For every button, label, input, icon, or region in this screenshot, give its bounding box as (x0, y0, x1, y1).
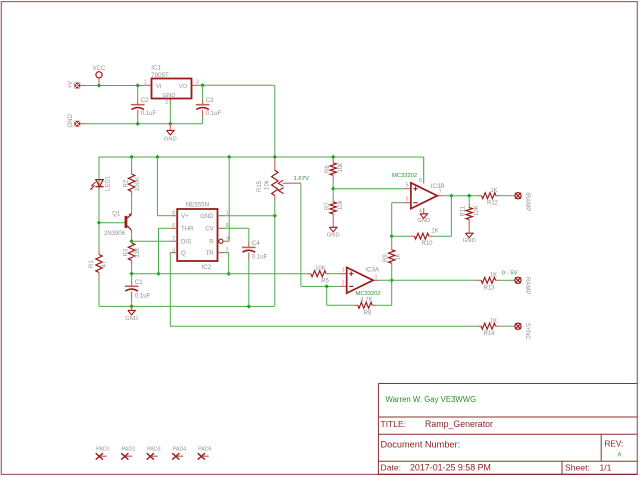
pad PAD2 (121, 447, 135, 460)
wire IC3B output (444, 195, 477, 197)
svg-text:Date:: Date: (381, 463, 402, 473)
svg-text:DIS: DIS (181, 238, 191, 245)
junction regulator feed / R15 (273, 155, 277, 159)
svg-text:0.1uF: 0.1uF (252, 253, 268, 260)
svg-text:R1: R1 (89, 260, 95, 268)
svg-text:R2: R2 (124, 179, 130, 187)
resistor R8 4.7K (327, 297, 392, 316)
junction IC1 GND pin (168, 122, 172, 126)
supply symbol VCC (93, 66, 106, 86)
junction R6 R7 node (331, 187, 335, 191)
svg-text:VO: VO (179, 84, 188, 90)
svg-text:REV:: REV: (605, 440, 624, 449)
svg-text:C3: C3 (206, 97, 214, 104)
svg-text:Q1: Q1 (112, 211, 121, 217)
svg-text:IC2: IC2 (202, 264, 212, 271)
wire DIS node to IC2 DIS pin (132, 240, 171, 242)
capacitor C3 0.1uF (196, 85, 222, 123)
svg-text:1K: 1K (431, 228, 438, 234)
svg-text:0 - 5V: 0 - 5V (502, 270, 518, 276)
svg-text:10k: 10k (338, 199, 344, 210)
timer IC2 NE555N (170, 201, 229, 271)
junction IC3A minus node (325, 284, 329, 288)
svg-text:1K: 1K (490, 188, 497, 194)
ground GND under IC3B (417, 214, 430, 224)
svg-text:GND: GND (163, 93, 176, 99)
wire 555 GND pin to R15 node (225, 215, 275, 217)
ground GND under IC1 (164, 124, 177, 143)
pad PAD4 (172, 447, 186, 460)
junction C3 top (200, 83, 204, 87)
svg-text:R9: R9 (383, 254, 389, 262)
svg-text:GND: GND (200, 213, 214, 220)
wire base node to Q1 (99, 222, 125, 224)
transistor Q1 2N3906 (104, 211, 132, 237)
svg-text:A: A (618, 453, 622, 459)
junction R10 output node (449, 194, 453, 198)
svg-text:0.1uF: 0.1uF (141, 110, 157, 117)
svg-text:1/1: 1/1 (600, 463, 612, 473)
wire Q1 collector to DIS node (131, 234, 133, 241)
svg-text:R6: R6 (325, 165, 331, 173)
svg-text:GND: GND (327, 233, 340, 239)
wire IC3A output to R13 (380, 279, 477, 281)
svg-text:6: 6 (172, 223, 175, 229)
junction C2 bottom (136, 122, 140, 126)
resistor R13 1K (477, 272, 513, 291)
resistor R3 33K (124, 241, 141, 274)
junction THR on triangle wire (156, 272, 160, 276)
title row text (381, 419, 494, 429)
pad SYNC (513, 323, 530, 340)
wire R10 right up to output (450, 196, 452, 237)
junction C4 bottom (247, 304, 251, 308)
wire divider to IC3B plus (333, 188, 403, 190)
pad PAD1 (96, 447, 110, 460)
svg-text:8: 8 (172, 211, 175, 217)
date row (381, 463, 491, 473)
svg-text:+V: +V (68, 81, 74, 89)
junction DIS node (129, 239, 133, 243)
junction VCC on +V wire (97, 83, 101, 87)
wire triangle node to R5 (132, 273, 307, 275)
svg-text:7: 7 (439, 190, 442, 196)
svg-text:Warren W. Gay VE3WWG: Warren W. Gay VE3WWG (386, 395, 477, 404)
capacitor C4 0.1uF (242, 240, 268, 306)
junction R11 top (467, 194, 471, 198)
pad RAMP (513, 277, 530, 294)
svg-text:3: 3 (342, 268, 345, 274)
svg-text:VCC: VCC (93, 66, 106, 72)
svg-text:8: 8 (419, 178, 422, 184)
resistor R14 1K (477, 318, 513, 337)
svg-text:1K: 1K (490, 272, 497, 278)
svg-text:33K: 33K (135, 247, 141, 258)
capacitor C1 0.1uF (125, 274, 151, 307)
resistor R2 100K (124, 157, 141, 195)
junction 555 V+ drop (155, 155, 159, 159)
wire +V to IC1 VI (86, 85, 145, 87)
wire Q to R14 sync line (170, 325, 477, 327)
svg-text:C1: C1 (135, 279, 143, 286)
ground GND under R11 (463, 233, 476, 244)
svg-text:Q: Q (181, 250, 186, 257)
svg-text:GND: GND (463, 238, 476, 244)
svg-text:CV: CV (205, 226, 214, 233)
wire R15 node down to ground rail (274, 216, 276, 307)
wire R2 to Q1 emitter (131, 195, 133, 213)
wire +5V rail (99, 156, 424, 158)
svg-text:IC3B: IC3B (431, 183, 445, 190)
svg-text:PAD3: PAD3 (147, 447, 160, 453)
svg-text:R3: R3 (124, 248, 130, 256)
svg-text:5: 5 (406, 183, 409, 189)
ground GND under C1 (125, 306, 138, 321)
svg-text:GND: GND (125, 316, 138, 322)
op-amp IC3B MC33202 (392, 157, 445, 215)
svg-text:10k: 10k (338, 162, 344, 173)
svg-text:PAD2: PAD2 (122, 447, 135, 453)
pad PAD3 (147, 447, 161, 460)
svg-text:R7: R7 (325, 202, 331, 210)
trimpot R15 10k (257, 157, 301, 216)
resistor R12 1K (478, 188, 514, 207)
wire ground rail bottom (99, 305, 275, 307)
svg-text:IRAMP: IRAMP (524, 192, 530, 211)
junction R10 left / R9 top (390, 234, 394, 238)
svg-text:IC3A: IC3A (365, 267, 380, 274)
wire IC1 GND pin to rail (169, 104, 171, 124)
resistor R5 10K (307, 266, 340, 285)
svg-text:10K: 10K (315, 266, 326, 272)
svg-text:2: 2 (342, 280, 345, 286)
capacitor C2 0.1uF (131, 86, 157, 124)
svg-text:R8: R8 (364, 310, 372, 316)
svg-text:LED1: LED1 (106, 175, 112, 191)
ground GND under R7 (327, 227, 340, 238)
svg-text:R12: R12 (487, 201, 499, 207)
pad PAD5 (198, 447, 212, 460)
svg-text:R13: R13 (483, 285, 495, 291)
svg-text:PAD1: PAD1 (96, 447, 109, 453)
svg-text:0.1uF: 0.1uF (135, 292, 151, 299)
pad IRAMP (513, 192, 530, 211)
svg-text:4.7K: 4.7K (360, 297, 372, 303)
svg-text:R14: R14 (483, 331, 495, 337)
svg-text:R5: R5 (321, 279, 329, 285)
svg-text:C2: C2 (141, 97, 149, 104)
wire TR down to triangle node (225, 252, 229, 254)
junction R15 bottom node (273, 214, 277, 218)
wire LED1 to base node (98, 190, 100, 223)
pad +V (68, 81, 86, 89)
svg-text:R: R (209, 238, 214, 245)
wire GND rail left (86, 123, 203, 125)
svg-text:1.67V: 1.67V (294, 176, 309, 182)
svg-text:R10: R10 (421, 241, 433, 247)
svg-text:GND: GND (68, 114, 74, 128)
svg-text:0.1uF: 0.1uF (206, 110, 222, 117)
svg-text:Document Number:: Document Number: (381, 440, 461, 450)
svg-text:IC1: IC1 (151, 65, 161, 72)
voltage regulator IC1 7805T (144, 65, 199, 107)
junction C1 bottom (129, 304, 133, 308)
svg-text:GND: GND (164, 137, 177, 143)
svg-text:C4: C4 (252, 240, 260, 247)
junction 555 reset drop (227, 155, 231, 159)
svg-text:3: 3 (172, 247, 175, 253)
svg-text:1K: 1K (490, 318, 497, 324)
wire reset pin up to rail (228, 240, 231, 242)
wire rail to LED1 (98, 157, 100, 179)
svg-text:6: 6 (406, 197, 409, 203)
junction TR on triangle wire (227, 272, 231, 276)
svg-text:7805T: 7805T (151, 72, 169, 79)
junction base node (97, 221, 101, 225)
svg-text:10k: 10k (264, 179, 270, 190)
junction C2 top (136, 83, 140, 87)
svg-text:MC33202: MC33202 (392, 173, 417, 179)
svg-text:PAD4: PAD4 (173, 447, 186, 453)
resistor R9 1k (383, 236, 401, 280)
junction R6 top (331, 155, 335, 159)
resistor R7 10k (325, 189, 344, 228)
svg-text:V+: V+ (181, 213, 189, 220)
junction R2 top on rail (129, 155, 133, 159)
resistor R11 10K (461, 196, 481, 234)
svg-text:MC33202: MC33202 (356, 291, 381, 297)
svg-text:10K: 10K (474, 205, 480, 216)
svg-text:2: 2 (165, 100, 168, 106)
svg-text:Ramp_Generator: Ramp_Generator (425, 419, 493, 429)
wire THR down to triangle node (159, 227, 171, 229)
svg-text:VI: VI (156, 84, 162, 90)
wire Q output down (169, 253, 171, 327)
pad GND (68, 114, 86, 128)
svg-text:PAD5: PAD5 (198, 447, 211, 453)
svg-text:1k: 1k (395, 253, 401, 260)
junction IC3A output node (390, 278, 394, 282)
svg-text:TITLE:: TITLE: (381, 419, 407, 429)
svg-text:2N3906: 2N3906 (104, 231, 126, 237)
title block grid (378, 384, 637, 475)
wire feedback up to output (391, 280, 393, 305)
sheet row (565, 463, 612, 473)
svg-text:47: 47 (102, 260, 108, 267)
wire minus node to feedback (326, 286, 328, 305)
LED LED1 (90, 175, 111, 191)
op-amp IC3A MC33202 (339, 267, 380, 297)
wire rail to 555 V+ (156, 157, 158, 216)
svg-text:THR: THR (181, 226, 194, 233)
resistor R10 1K (392, 228, 452, 247)
svg-text:NE555N: NE555N (186, 201, 209, 208)
svg-text:RAMP: RAMP (524, 277, 530, 294)
wire IC1 VO to rail drop (199, 84, 275, 86)
resistor R6 10k (325, 157, 344, 189)
svg-text:Sheet:: Sheet: (565, 463, 590, 473)
svg-text:TR: TR (206, 250, 215, 257)
svg-text:R11: R11 (461, 205, 467, 216)
wire wiper 1.67V down (300, 183, 302, 286)
svg-text:3: 3 (196, 80, 199, 86)
junction triangle node left (129, 272, 133, 276)
svg-text:R15: R15 (257, 180, 263, 192)
svg-text:2017-01-25 9:58 PM: 2017-01-25 9:58 PM (410, 463, 491, 473)
svg-text:1: 1 (144, 80, 147, 86)
svg-text:GND: GND (417, 218, 430, 224)
svg-text:SYNC: SYNC (524, 323, 530, 340)
svg-text:1: 1 (375, 274, 378, 280)
svg-text:100K: 100K (135, 177, 141, 191)
wire CV to C4 (225, 227, 249, 229)
wire IC3B minus loop (392, 202, 404, 204)
svg-text:7: 7 (172, 236, 175, 242)
resistor R1 47 (89, 223, 108, 307)
